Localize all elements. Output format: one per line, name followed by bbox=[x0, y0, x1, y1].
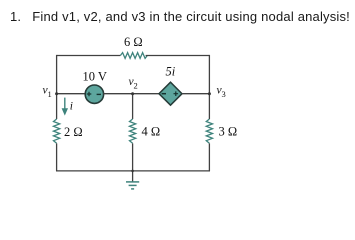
wire bottom bbox=[56, 170, 210, 172]
current arrow i bbox=[62, 98, 68, 116]
label 10 V bbox=[83, 69, 107, 83]
svg-text:6 Ω: 6 Ω bbox=[124, 35, 143, 49]
ground bbox=[126, 171, 139, 189]
dependent current source 5i bbox=[159, 82, 182, 105]
wire middle horizontal diamond to v3 bbox=[182, 93, 209, 95]
wire middle vertical lower bbox=[132, 143, 134, 171]
wire left vertical lower bbox=[56, 143, 58, 171]
wire middle horizontal v1 to source bbox=[57, 93, 85, 95]
wire top-left segment bbox=[57, 55, 121, 57]
svg-text:i: i bbox=[70, 101, 73, 113]
node v1 bbox=[43, 85, 59, 100]
node v2 bbox=[129, 76, 138, 95]
wire middle horizontal source to v2 to diamond bbox=[103, 93, 159, 95]
voltage source 10V bbox=[85, 85, 103, 103]
node v3 bbox=[208, 85, 226, 100]
svg-text:10 V: 10 V bbox=[83, 69, 107, 83]
svg-text:4 Ω: 4 Ω bbox=[142, 125, 161, 139]
label 4 ohm bbox=[142, 125, 161, 139]
resistor 3ohm zigzag bbox=[206, 119, 212, 143]
resistor 2ohm zigzag bbox=[54, 119, 60, 143]
wire right vertical lower bbox=[208, 143, 210, 171]
label i bbox=[70, 101, 73, 113]
wire top-right segment bbox=[146, 55, 210, 57]
wire right vertical upper bbox=[208, 55, 210, 119]
svg-text:1: 1 bbox=[48, 89, 52, 99]
svg-text:3 Ω: 3 Ω bbox=[219, 125, 238, 139]
wire left vertical upper bbox=[56, 55, 58, 119]
wire middle vertical v2 branch upper bbox=[132, 94, 134, 119]
svg-text:3: 3 bbox=[222, 89, 226, 99]
label 6 ohm bbox=[124, 35, 143, 49]
svg-text:2: 2 bbox=[134, 81, 138, 91]
label 5i bbox=[166, 64, 176, 78]
resistor 4ohm zigzag bbox=[130, 119, 136, 143]
label 2 ohm bbox=[64, 125, 83, 139]
junction ground node bbox=[131, 170, 134, 173]
svg-text:2 Ω: 2 Ω bbox=[64, 125, 83, 139]
svg-text:5i: 5i bbox=[166, 64, 176, 78]
resistor 6ohm zigzag bbox=[120, 53, 147, 59]
label 3 ohm bbox=[219, 125, 238, 139]
problem statement text bbox=[10, 9, 350, 24]
